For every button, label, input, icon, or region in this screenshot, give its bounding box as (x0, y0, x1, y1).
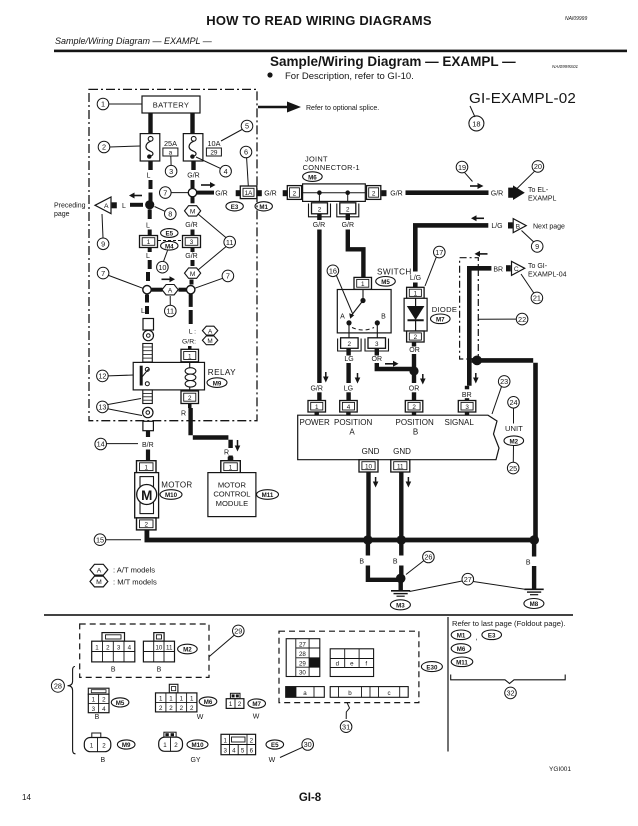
bolt terminal (circle) (143, 330, 153, 340)
svg-text:M5: M5 (116, 700, 125, 707)
svg-text:5: 5 (245, 122, 249, 131)
harness oval M7 (431, 314, 451, 324)
svg-text:G/R: G/R (313, 222, 325, 229)
svg-text:EXAMPL-04: EXAMPL-04 (528, 272, 567, 279)
junction dot on L wire (145, 200, 154, 209)
OR wire diode to unit pin2 (412, 342, 416, 347)
callout 17 (434, 246, 446, 258)
battery B1 (142, 96, 200, 113)
svg-text:30: 30 (304, 740, 312, 749)
direction arrow left (BR) (479, 253, 488, 255)
svg-text:M11: M11 (262, 492, 274, 499)
dash-dot option box (BR branch) (460, 258, 479, 359)
svg-text:1: 1 (95, 645, 99, 652)
hatched bracket below relay (143, 390, 153, 404)
svg-text:L: L (141, 308, 145, 315)
svg-text:Refer to last page (Foldout pa: Refer to last page (Foldout page). (452, 619, 566, 628)
BR wire elbow (467, 266, 491, 386)
svg-text:B/R: B/R (142, 442, 154, 449)
svg-text:M6: M6 (204, 699, 213, 706)
G/R wire joint to switch (346, 214, 350, 220)
callout 14 (95, 438, 107, 450)
unit pin 2 (405, 401, 423, 413)
svg-text:POWER: POWER (300, 418, 330, 427)
svg-text:1: 1 (229, 465, 233, 472)
svg-text:2: 2 (414, 334, 418, 341)
svg-text:1: 1 (223, 737, 227, 744)
joint bottom pin 2 (left) (312, 203, 328, 214)
svg-text:: A/T models: : A/T models (113, 566, 155, 575)
svg-text:1: 1 (159, 695, 163, 702)
harness oval E3 (482, 630, 502, 640)
OR wire from switch to junction (375, 349, 379, 356)
svg-text:4: 4 (347, 404, 351, 411)
junction dot above ground M3 (396, 574, 406, 584)
inline connector 1 (E5/M4) left (140, 236, 158, 248)
svg-text:11: 11 (166, 645, 173, 652)
harness oval M10 (160, 490, 182, 500)
svg-text:3: 3 (117, 645, 121, 652)
svg-text:2: 2 (188, 395, 192, 402)
svg-text:M3: M3 (396, 603, 405, 610)
svg-text:UNIT: UNIT (505, 424, 523, 433)
model diamond M (185, 206, 201, 216)
direction arrow right (201, 184, 211, 186)
ground M3 (399, 581, 403, 591)
branch wire left from dot (130, 203, 143, 207)
svg-text:14: 14 (22, 793, 31, 802)
callout 3 (170, 156, 172, 165)
svg-text:LG: LG (344, 356, 353, 363)
dashed L wire below dot (148, 210, 152, 220)
top rule (54, 50, 627, 53)
switch pin 1 (354, 277, 372, 289)
svg-text:CONTROL: CONTROL (213, 490, 250, 499)
svg-text:GND: GND (362, 447, 380, 456)
direction arrow left (133, 195, 142, 197)
unit box M2 (298, 415, 499, 460)
svg-text:3: 3 (190, 239, 194, 246)
svg-text:2: 2 (169, 705, 173, 712)
fusible link a (25A) (140, 134, 160, 161)
relay box M9 (133, 362, 204, 390)
svg-text:MOTOR: MOTOR (161, 481, 192, 490)
gnd wire 11 down (399, 472, 403, 540)
svg-text:,: , (476, 633, 478, 642)
svg-text:OR: OR (409, 385, 420, 392)
svg-text:10: 10 (158, 263, 166, 272)
callout 12 (97, 370, 109, 382)
svg-text:G/R:: G/R: (182, 338, 196, 345)
svg-text:M5: M5 (381, 279, 390, 286)
svg-text:2: 2 (144, 522, 148, 529)
svg-text:3: 3 (375, 341, 379, 348)
callout 26 (423, 551, 435, 563)
svg-text:11: 11 (167, 307, 175, 316)
svg-text:To GI-: To GI- (528, 263, 548, 270)
svg-text:29: 29 (299, 660, 306, 667)
svg-text:9: 9 (101, 240, 105, 249)
connector face M6 (169, 684, 178, 693)
diode pin 2 (407, 331, 425, 342)
svg-text:6: 6 (250, 748, 254, 755)
svg-text:31: 31 (342, 722, 350, 731)
harness oval M11 ref (451, 657, 473, 667)
motor control module pin 1 (228, 457, 234, 461)
svg-text:10: 10 (365, 464, 373, 471)
callout 20 (532, 161, 544, 173)
svg-text:GY: GY (190, 757, 200, 764)
callout 16 (327, 265, 339, 277)
svg-text:20: 20 (534, 162, 542, 171)
harness oval E30 (421, 662, 442, 672)
svg-text:M9: M9 (213, 380, 222, 387)
harness oval M9 (117, 740, 135, 749)
callout 32 (505, 687, 517, 699)
svg-text:G/R: G/R (187, 172, 199, 179)
svg-text:9: 9 (535, 242, 539, 251)
arrow: refer to optional splice (258, 106, 288, 108)
svg-text:17: 17 (435, 248, 443, 257)
wire battery to fuse 2 (190, 113, 194, 134)
svg-text:YGI001: YGI001 (549, 766, 571, 773)
ground M8 (525, 588, 544, 590)
terminal box below (143, 421, 154, 430)
bolt terminal below (143, 407, 153, 417)
svg-text:B: B (111, 667, 116, 674)
svg-text:M8: M8 (530, 601, 539, 608)
svg-text:4: 4 (232, 748, 236, 755)
svg-text:R: R (181, 411, 186, 418)
switch body M5 (337, 290, 391, 333)
svg-text:22: 22 (518, 315, 526, 324)
svg-text:L/G: L/G (491, 223, 502, 230)
svg-text:W: W (269, 757, 276, 764)
svg-text:2: 2 (180, 705, 184, 712)
callout 4 (220, 165, 232, 177)
svg-text:M2: M2 (509, 438, 518, 445)
svg-text:B: B (359, 559, 364, 566)
harness oval E5 (266, 740, 284, 749)
svg-text:L/G: L/G (410, 275, 421, 282)
svg-text:W: W (253, 713, 260, 720)
splice node (open) L bottom (143, 286, 151, 294)
svg-text:2: 2 (190, 705, 194, 712)
svg-text:18: 18 (472, 119, 480, 128)
bus junction dots (363, 535, 373, 545)
svg-text:M: M (96, 579, 102, 586)
page connector triangle C (to GI-EXAMPL-04) (506, 265, 511, 271)
svg-text:B: B (413, 428, 418, 437)
G/R wire below connector 3 (191, 248, 195, 253)
svg-text:E5: E5 (271, 742, 279, 749)
svg-text:2: 2 (412, 404, 416, 411)
harness oval M5 (376, 277, 396, 287)
switch pin 2 (341, 338, 359, 349)
callout 22 (516, 313, 528, 325)
callout 5 (241, 120, 253, 132)
direction arrow right (G/R) (470, 185, 479, 187)
unit gnd pin 10 (359, 460, 378, 472)
svg-text:GI-8: GI-8 (299, 792, 322, 804)
wire battery to fuse 1 (148, 113, 152, 134)
callout 11 right (224, 236, 236, 248)
B/R wire down (146, 431, 150, 437)
svg-text:L: L (146, 172, 150, 179)
svg-text:14: 14 (97, 440, 105, 449)
svg-text:E3: E3 (231, 204, 239, 211)
svg-text:B: B (100, 757, 105, 764)
motor pin 1 (137, 461, 157, 473)
svg-text:1: 1 (361, 281, 365, 288)
fuse 1 bottom stub (148, 161, 152, 170)
svg-text:M6: M6 (457, 646, 466, 653)
svg-text:B: B (381, 313, 386, 320)
svg-text:GND: GND (393, 447, 411, 456)
splice node (open) on G/R (188, 188, 196, 196)
svg-text:a: a (169, 150, 173, 157)
callout 2 (98, 141, 110, 153)
svg-text:For Description, refer to GI-1: For Description, refer to GI-10. (285, 71, 414, 82)
harness oval E3 (226, 202, 243, 211)
svg-text:POSITION: POSITION (334, 418, 372, 427)
svg-text:7: 7 (101, 269, 105, 278)
dashed group box (M2 connectors) (80, 624, 209, 677)
svg-text:A: A (349, 428, 355, 437)
svg-text:E30: E30 (426, 664, 438, 671)
motor wire to ground bus (145, 530, 538, 543)
svg-text:A: A (168, 287, 173, 294)
svg-text:27: 27 (464, 575, 472, 584)
wire junction to right edge (472, 358, 538, 540)
callout 15 (94, 534, 106, 546)
svg-text:BATTERY: BATTERY (153, 101, 189, 110)
splice node (open) G/R bottom (187, 286, 195, 294)
harness oval M6 (303, 172, 323, 182)
model legend M/T (90, 576, 108, 587)
svg-text:2: 2 (293, 190, 297, 197)
svg-text:HOW TO READ WIRING DIAGRAMS: HOW TO READ WIRING DIAGRAMS (206, 13, 432, 28)
svg-text:5: 5 (241, 748, 245, 755)
svg-text:3: 3 (465, 404, 469, 411)
svg-text:NAI09999: NAI09999 (565, 16, 587, 22)
diode body M7 (404, 298, 427, 331)
callout 7 left lower (97, 267, 109, 279)
svg-text:MOTOR: MOTOR (218, 480, 247, 489)
svg-text:C: C (514, 266, 519, 273)
cross wire between splices with diamond A (152, 288, 163, 292)
svg-text:2: 2 (318, 206, 322, 213)
connector face M2-B (154, 633, 164, 642)
motor M10 body (135, 473, 159, 518)
svg-text:M11: M11 (456, 660, 468, 667)
direction arrow right small (162, 278, 171, 280)
E30 strip a (286, 687, 325, 698)
bullet line (267, 72, 272, 77)
unit pin 3 (458, 401, 476, 413)
svg-text:M: M (190, 209, 196, 216)
G/R wire below splice, diamond M (191, 197, 195, 204)
callout 30 (302, 739, 314, 751)
connector face M9 (92, 733, 101, 738)
svg-text:M: M (141, 488, 152, 503)
svg-text:CONNECTOR-1: CONNECTOR-1 (303, 163, 360, 172)
harness ovals E5 / M4 (161, 229, 178, 238)
svg-text:Sample/Wiring Diagram — EXAMPL: Sample/Wiring Diagram — EXAMPL — (55, 36, 213, 46)
L wire below connector 1 (148, 248, 152, 253)
svg-text:Next page: Next page (533, 223, 565, 230)
svg-text:page: page (54, 211, 70, 218)
svg-text:G/R: G/R (185, 253, 197, 260)
callout 19 (456, 161, 468, 173)
svg-text:G/R: G/R (390, 190, 402, 197)
branch wire right from splice (197, 191, 214, 195)
relay contact points (145, 367, 149, 371)
svg-text:SWITCH: SWITCH (377, 268, 412, 277)
svg-text:1: 1 (180, 695, 184, 702)
direction arrow down (237, 440, 239, 447)
svg-text:2: 2 (159, 705, 163, 712)
model legend A/T (90, 564, 108, 575)
svg-text:27: 27 (299, 641, 306, 648)
page connector triangle A (preceding page) (95, 197, 111, 214)
harness oval M6 (199, 697, 217, 706)
svg-text:2: 2 (372, 190, 376, 197)
svg-text:4: 4 (224, 167, 228, 176)
unit pin 1 (308, 401, 326, 413)
switch pin 3 (368, 338, 386, 349)
svg-text:7: 7 (163, 188, 167, 197)
svg-text:2: 2 (102, 697, 106, 704)
svg-text:26: 26 (424, 553, 432, 562)
svg-text:G/R: G/R (185, 222, 197, 229)
svg-text:13: 13 (98, 403, 106, 412)
bracket for 32 (451, 675, 566, 684)
svg-text:M7: M7 (252, 701, 261, 708)
page connector triangle B (next page) (508, 222, 513, 228)
dashed group box E30 (279, 631, 419, 702)
relay contact bar (140, 366, 143, 386)
svg-text:B: B (526, 560, 531, 567)
svg-text:RELAY: RELAY (208, 368, 236, 377)
svg-text:e: e (350, 661, 354, 668)
callout 6 (240, 146, 252, 158)
harness oval M1 (451, 630, 471, 640)
svg-text:30: 30 (299, 670, 306, 677)
model diamond M lower (185, 268, 201, 278)
svg-text:L: L (146, 253, 150, 260)
callout 27 (462, 573, 474, 585)
svg-text:POSITION: POSITION (396, 418, 434, 427)
relay pin 2 (181, 391, 199, 404)
svg-text:LG: LG (344, 385, 353, 392)
svg-text:R: R (224, 449, 229, 456)
LG wire to unit pin4 (346, 349, 350, 356)
svg-text:B: B (157, 667, 162, 674)
callout 23 (498, 376, 510, 388)
svg-text:1: 1 (90, 742, 94, 749)
svg-text:1: 1 (163, 742, 167, 749)
svg-text:G/R: G/R (342, 222, 354, 229)
inline connector 3 (E5/M4) right (183, 236, 201, 248)
svg-text:A: A (97, 567, 102, 574)
svg-text:25: 25 (509, 464, 517, 473)
dash-dot option box (left) (89, 89, 257, 420)
G/R wire from splice down to relay pin 1 (189, 294, 193, 307)
svg-text:2: 2 (102, 742, 106, 749)
svg-text:OR: OR (372, 356, 383, 363)
refer block divider (447, 617, 449, 752)
svg-text:d: d (336, 661, 340, 668)
connector face M10 (164, 732, 176, 737)
svg-text:L: L (122, 203, 126, 210)
E30 fuse grid left (286, 639, 320, 677)
BR arrow down to pin3 (475, 373, 477, 379)
svg-text:16: 16 (329, 267, 337, 276)
callout 10 (157, 261, 169, 273)
svg-text:G/R: G/R (215, 190, 227, 197)
diode pin 1 (407, 287, 425, 298)
callout 1 (97, 98, 109, 110)
svg-text:3: 3 (169, 167, 173, 176)
svg-text:G/R: G/R (264, 190, 276, 197)
G/R wire to EL page (406, 190, 489, 195)
svg-text:2: 2 (348, 341, 352, 348)
direction arrow left (475, 217, 484, 219)
motor pin 2 (137, 518, 157, 530)
relay pin 1 (188, 346, 192, 350)
E30 fuse grid right (d e f) (330, 649, 373, 677)
fuse 2 bottom stub (191, 161, 195, 170)
svg-text:15: 15 (96, 535, 104, 544)
svg-text:11: 11 (226, 238, 234, 247)
unit gnd pin 11 (391, 460, 410, 472)
svg-text:2: 2 (174, 742, 178, 749)
joint connector JC1 body (303, 184, 366, 202)
harness oval M11 (257, 490, 279, 500)
callout 7 right lower (222, 270, 234, 282)
callout 18 (470, 106, 475, 117)
terminal box above relay (143, 319, 154, 331)
relay coil (189, 362, 191, 368)
switch common contact (362, 290, 364, 301)
svg-text:M1: M1 (457, 633, 466, 640)
svg-text:B: B (516, 223, 521, 230)
section divider rule (44, 614, 573, 616)
harness oval M2 (504, 436, 524, 446)
svg-text:28: 28 (299, 651, 306, 658)
svg-text:M: M (190, 271, 196, 278)
harness oval M9 (207, 378, 227, 388)
svg-text:L: L (146, 223, 150, 230)
svg-text:6: 6 (244, 148, 248, 157)
callout 13 (97, 401, 109, 413)
svg-text:1: 1 (169, 695, 173, 702)
harness oval M2 (178, 644, 198, 654)
callout 7 (160, 187, 172, 199)
svg-text:4: 4 (128, 645, 132, 652)
svg-text:A: A (104, 203, 109, 210)
svg-text:Preceding: Preceding (54, 203, 86, 210)
svg-text:7: 7 (226, 272, 230, 281)
svg-text:32: 32 (506, 689, 514, 698)
svg-text:M1: M1 (259, 204, 268, 211)
svg-text:Sample/Wiring Diagram — EXAMPL: Sample/Wiring Diagram — EXAMPL — (270, 54, 516, 69)
connector face E5 (221, 734, 256, 754)
svg-text:BR: BR (493, 266, 503, 273)
svg-text:B: B (393, 559, 398, 566)
connector face M5 (88, 688, 109, 694)
